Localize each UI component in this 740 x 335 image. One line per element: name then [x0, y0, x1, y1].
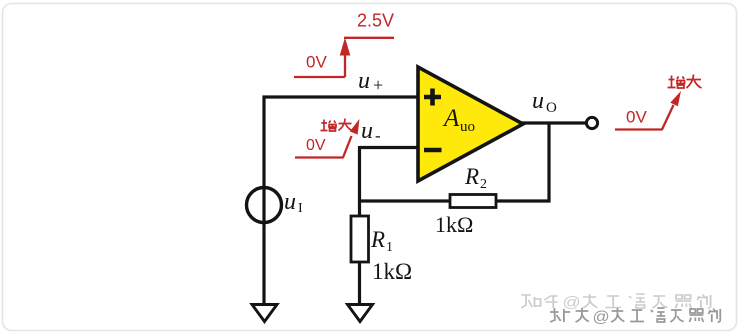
- op-amp U1 (Auo): [418, 67, 523, 181]
- wire: op-amp output: [522, 121, 587, 124]
- svg-text:1kΩ: 1kΩ: [372, 259, 412, 284]
- resistor R2: [450, 195, 496, 208]
- ramp arrowhead at u-: [350, 119, 360, 135]
- wire: non-inverting input (u+ node to op-amp): [263, 95, 419, 98]
- op-amp minus marking: [424, 148, 442, 153]
- op-amp plus marking: [424, 89, 441, 106]
- svg-text:0V: 0V: [306, 53, 327, 72]
- wire: inverting input (op-amp to node): [360, 146, 419, 149]
- ramp waveform at u- : flat segment: [295, 136, 352, 158]
- ground (under R1): [348, 305, 373, 322]
- wire: feedback riser up to output: [547, 123, 550, 203]
- svg-text:u: u: [358, 68, 370, 94]
- voltage source u_I: [247, 188, 282, 223]
- svg-text:I: I: [298, 201, 303, 216]
- svg-text:2: 2: [480, 177, 487, 192]
- label increase (zeng da) at u-: [321, 119, 353, 132]
- ground (left): [252, 305, 277, 322]
- svg-text:@: @: [562, 293, 580, 310]
- wire: inverting node down to R1: [358, 146, 361, 217]
- ramp arrowhead at output: [670, 91, 681, 106]
- watermark toutiao line: [550, 308, 722, 326]
- svg-text:0V: 0V: [306, 137, 326, 154]
- svg-text:R: R: [464, 164, 479, 189]
- wire: left vertical through source uI: [262, 96, 265, 305]
- svg-text:1kΩ: 1kΩ: [435, 212, 473, 237]
- svg-text:-: -: [375, 126, 381, 145]
- svg-text:u: u: [532, 88, 544, 114]
- step waveform rising edge: [344, 52, 346, 77]
- svg-text:u: u: [284, 189, 296, 215]
- svg-text:R: R: [370, 227, 385, 252]
- svg-text:2.5V: 2.5V: [357, 11, 394, 31]
- wire: R1 to ground: [358, 262, 361, 304]
- svg-text:u: u: [361, 118, 373, 144]
- resistor R1: [351, 216, 369, 262]
- svg-text:1: 1: [386, 240, 393, 255]
- svg-text:uo: uo: [460, 119, 475, 135]
- ramp waveform at output: flat segment: [615, 105, 674, 130]
- svg-text:@: @: [593, 308, 610, 325]
- wire: node to R2: [360, 199, 451, 202]
- watermark zhihu line: [521, 293, 710, 310]
- output terminal: [586, 117, 597, 128]
- step waveform high segment: [344, 37, 394, 39]
- svg-text:+: +: [373, 75, 383, 95]
- label increase (zeng da) at output: [668, 75, 702, 89]
- step waveform low segment (u+ drive): [294, 76, 345, 78]
- svg-text:O: O: [546, 100, 557, 116]
- step waveform arrowhead: [340, 38, 351, 56]
- wire: R2 to feedback riser: [496, 199, 551, 202]
- svg-text:0V: 0V: [626, 108, 647, 127]
- svg-text:A: A: [442, 105, 460, 132]
